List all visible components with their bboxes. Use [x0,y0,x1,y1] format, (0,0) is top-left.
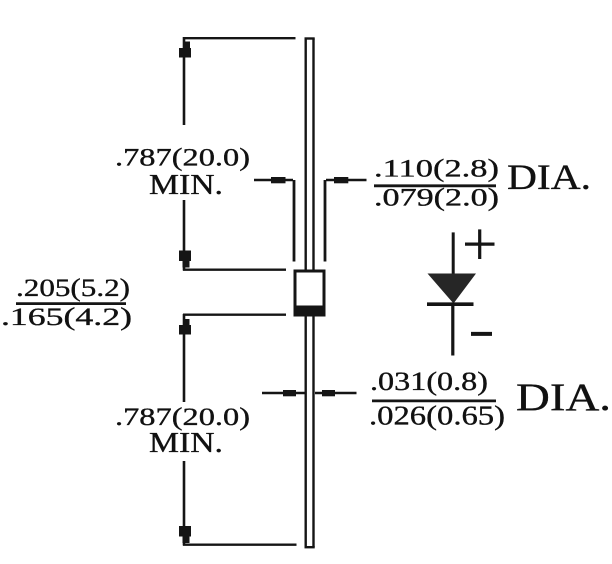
svg-text:DIA.: DIA. [507,157,591,197]
diode body cathode band [294,306,326,317]
svg-text:DIA.: DIA. [516,376,611,419]
svg-text:.205(5.2): .205(5.2) [16,275,130,302]
svg-text:.165(4.2): .165(4.2) [1,304,132,331]
top dimension .787 MIN: top reference line [183,37,296,39]
svg-text:.110(2.8): .110(2.8) [374,156,499,183]
top dimension down arrowhead [179,251,191,268]
diode symbol cathode bar [427,302,474,306]
wire upper lead [305,39,315,271]
lead dia dimension left arrow [262,390,305,396]
diode symbol plus sign [465,229,495,259]
body dia dimension left arrow [254,177,293,183]
diode symbol minus sign [471,332,492,336]
diode body outline [295,271,324,315]
top dimension up arrowhead [179,42,191,58]
extension line right of body dia [324,180,327,262]
bottom dimension vertical line lower segment [183,461,186,546]
top dimension vertical line lower segment [183,200,186,271]
svg-text:.787(20.0): .787(20.0) [115,145,250,172]
diode symbol triangle [428,274,477,304]
bottom dimension .787 MIN: body bottom reference line [183,314,286,316]
svg-text:.079(2.0): .079(2.0) [374,185,499,212]
bottom dimension down arrowhead [179,526,191,543]
extension line left of body dia [293,180,296,262]
top dimension vertical line upper segment [183,37,186,125]
diode symbol cathode lead wire [451,306,454,356]
body dia dimension right arrow [326,177,367,183]
bottom dimension vertical line upper segment [183,314,186,402]
body top reference line [183,269,286,271]
bottom reference line at lead end [183,544,297,546]
diode symbol D1: anode lead wire [452,232,455,276]
svg-text:MIN.: MIN. [149,170,223,201]
svg-text:.031(0.8): .031(0.8) [370,367,488,396]
wire lower lead [305,316,315,547]
fraction bar for .205/.165 [16,302,126,305]
svg-text:.787(20.0): .787(20.0) [115,404,250,431]
fraction bar for .110/.079 [374,184,496,187]
fraction bar for .031/.026 [372,399,496,402]
lead dia dimension right arrow [315,390,357,396]
svg-text:.026(0.65): .026(0.65) [369,401,505,431]
bottom dimension up arrowhead [179,319,191,335]
svg-text:MIN.: MIN. [149,428,223,459]
